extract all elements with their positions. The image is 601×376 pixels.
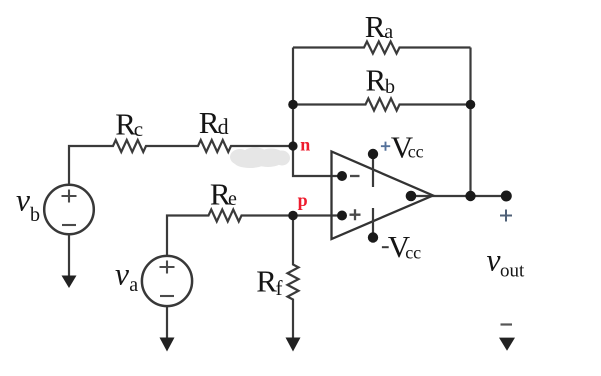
- plus sign in va: [160, 261, 175, 274]
- source vb circle: [44, 185, 94, 235]
- wire node n down to inverting input: [293, 146, 342, 176]
- wire vb to ground: [68, 235, 70, 277]
- ground arrow below vb: [62, 276, 77, 289]
- node dot Rb right: [466, 100, 476, 110]
- source va circle: [142, 256, 192, 306]
- plus sign at non-inverting input: [350, 209, 361, 220]
- inverting input dot: [337, 171, 347, 181]
- output junction dot: [465, 191, 475, 201]
- non-inverting input dot: [337, 211, 347, 221]
- erased smudge near node n: [230, 148, 290, 169]
- svg-text:v: v: [16, 183, 30, 218]
- resistor Rf branch wire: [288, 216, 299, 340]
- plus sign in vb: [62, 190, 77, 203]
- wire va top loop with resistor Re to node p and + input: [167, 210, 342, 256]
- svg-text:b: b: [30, 204, 40, 226]
- resistor Rb branch wire: [293, 99, 471, 111]
- -Vcc pin line: [372, 208, 374, 237]
- svg-text:b: b: [385, 76, 395, 98]
- label -Vcc minus sign: [382, 246, 389, 248]
- ground arrow below va: [160, 338, 175, 352]
- node dot Rb left: [288, 100, 298, 110]
- output end dot: [501, 191, 512, 202]
- vout minus terminal: [501, 323, 513, 325]
- svg-text:n: n: [300, 135, 310, 155]
- vout reference arrow: [499, 338, 515, 351]
- node n dot: [288, 141, 297, 150]
- vout plus terminal: [500, 210, 512, 222]
- ground arrow below Rf: [286, 338, 301, 352]
- wire va to ground: [166, 307, 168, 340]
- svg-text:R: R: [365, 9, 386, 44]
- op-amp U1 triangle: [332, 152, 434, 240]
- wire left vertical node n up to Ra/Rb branches: [292, 48, 294, 147]
- resistor Ra branch wire: [293, 42, 471, 54]
- -Vcc dot: [368, 232, 378, 242]
- +Vcc pin line: [372, 155, 374, 187]
- wire right vertical feedback: [469, 48, 471, 197]
- wire vb top loop with resistors Rc Rd to node n: [69, 140, 293, 185]
- svg-text:c: c: [134, 117, 143, 141]
- svg-text:cc: cc: [408, 142, 424, 162]
- svg-text:p: p: [298, 190, 308, 210]
- svg-text:e: e: [228, 188, 237, 210]
- svg-text:v: v: [115, 257, 129, 292]
- minus sign at inverting input: [350, 175, 360, 177]
- svg-text:v: v: [487, 243, 501, 278]
- svg-text:d: d: [218, 114, 229, 139]
- svg-text:cc: cc: [405, 242, 421, 262]
- svg-text:a: a: [129, 274, 138, 296]
- svg-text:f: f: [276, 276, 283, 300]
- svg-text:a: a: [384, 21, 393, 43]
- node p dot: [288, 211, 298, 221]
- svg-text:out: out: [500, 261, 525, 282]
- +Vcc dot: [368, 149, 378, 159]
- wire output: [411, 195, 506, 197]
- output pin dot: [406, 191, 417, 202]
- svg-text:R: R: [256, 264, 277, 299]
- minus sign in vb: [62, 224, 76, 226]
- svg-text:R: R: [366, 62, 387, 97]
- minus sign in va: [160, 295, 174, 297]
- label +Vcc plus sign: [381, 142, 390, 151]
